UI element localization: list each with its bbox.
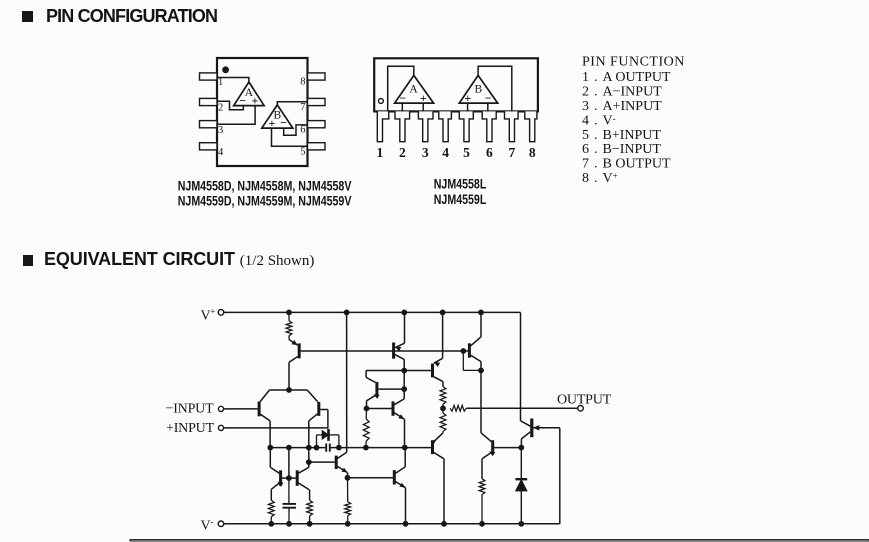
IC package DIP-8 body [217, 58, 308, 166]
svg-text:1: 1 [377, 145, 384, 160]
wire U-B +in to pin5 [467, 103, 469, 111]
junction Q4 base tie [461, 349, 484, 373]
capacitor C2 [283, 478, 297, 524]
SIP pins 1-8 [377, 111, 537, 141]
junction Q2 collector [402, 368, 407, 391]
wire U-A -in to pin2 [401, 103, 403, 111]
op-amp U-B (SIP) [459, 75, 497, 105]
terminal -INPUT [218, 406, 223, 411]
transistor Q15 (output) [521, 419, 560, 448]
transistor Q6 (+input) [309, 402, 328, 448]
svg-text:6.B−INPUT: 6.B−INPUT [582, 142, 661, 157]
svg-text:B: B [474, 84, 482, 96]
junction Q9 base [306, 460, 311, 465]
wire common base line [301, 350, 469, 352]
svg-text:OUTPUT: OUTPUT [557, 393, 612, 408]
header text: PIN CONFIGURATION [46, 6, 217, 28]
transistor Q3 (VAS) [433, 312, 444, 386]
svg-text:4: 4 [218, 147, 224, 158]
wire diff emitter rail [260, 390, 318, 402]
svg-text:7.B OUTPUT: 7.B OUTPUT [582, 157, 671, 172]
resistor R8 (horizontal) [450, 405, 466, 411]
resistor R1 [286, 312, 292, 339]
op-amp U-A (SIP) [395, 75, 434, 105]
svg-text:3: 3 [218, 125, 223, 136]
resistor R7 [440, 408, 446, 433]
junction diff tail [287, 388, 292, 393]
svg-text:A: A [409, 84, 418, 96]
svg-text:1.A OUTPUT: 1.A OUTPUT [582, 70, 671, 85]
wire U-B -in to pin6 [487, 103, 489, 111]
transistor Q11 [297, 448, 309, 501]
svg-text:V+: V+ [201, 306, 216, 323]
wire VAS node line [270, 447, 431, 449]
wire V+ rail [224, 312, 521, 420]
diode D1 [317, 429, 339, 448]
svg-text:V-: V- [201, 516, 214, 533]
svg-text:−: − [485, 91, 492, 105]
svg-text:NJM4558L: NJM4558L [434, 176, 487, 192]
resistor R6 [440, 387, 446, 409]
DIP right pins 8-5 [308, 73, 326, 150]
SIP index circle [379, 99, 384, 104]
DIP left pins 1-4 [200, 73, 218, 150]
wire pin6 to U-B -in [284, 125, 308, 135]
wire Q4 collector drop [480, 370, 482, 433]
svg-text:2: 2 [218, 103, 223, 114]
transistor Q14 [481, 433, 520, 479]
svg-text:+: + [251, 94, 258, 108]
wire VAS base line [366, 371, 431, 378]
svg-text:3: 3 [422, 145, 429, 160]
wire U-B out to pin7 [478, 66, 512, 111]
svg-text:NJM4559D, NJM4559M, NJM4559V: NJM4559D, NJM4559M, NJM4559V [178, 193, 352, 209]
svg-text:6: 6 [486, 145, 493, 160]
svg-text:NJM4558D, NJM4558M, NJM4558V: NJM4558D, NJM4558M, NJM4558V [178, 178, 352, 194]
diode D2 [515, 448, 527, 524]
resistor R9 [479, 479, 485, 524]
header square: EQUIVALENT CIRCUIT [23, 255, 34, 266]
wire pin1 to U-A out [217, 78, 249, 83]
label SIP part numbers [434, 176, 487, 207]
svg-text:8.V+: 8.V+ [582, 171, 618, 186]
svg-text:2.A−INPUT: 2.A−INPUT [582, 85, 662, 100]
header square: PIN CONFIGURATION [22, 11, 33, 22]
svg-text:−: − [239, 93, 246, 107]
transistor Q13 [431, 433, 444, 524]
svg-text:4: 4 [442, 145, 449, 160]
wire pin5 to U-B +in [272, 128, 308, 146]
wire -INPUT lead [224, 408, 258, 410]
resistor R3 [307, 500, 313, 524]
wire V+ center drop [346, 312, 348, 452]
wire pin3 to U-A +in [217, 106, 255, 125]
wire pin2 to U-A -in [217, 101, 243, 110]
wire U-B out to pin7 [277, 102, 307, 105]
junction node line [268, 445, 407, 450]
svg-text:6: 6 [300, 124, 305, 135]
transistor Q7 [366, 377, 404, 408]
svg-text:NJM4559L: NJM4559L [434, 192, 487, 208]
svg-text:5.B+INPUT: 5.B+INPUT [582, 128, 661, 143]
wire OUTPUT line [466, 407, 577, 409]
resistor R4 [345, 478, 351, 524]
transistor Q4 (diode conn.) [463, 312, 481, 370]
junction Q7 emitter node [364, 406, 369, 411]
svg-text:−: − [280, 116, 287, 130]
svg-text:4.V-: 4.V- [582, 113, 616, 128]
terminal OUTPUT [578, 406, 584, 412]
transistor Q8 [367, 399, 405, 448]
junction output node [441, 406, 446, 411]
header text: EQUIVALENT CIRCUIT [44, 249, 314, 271]
wire +INPUT lead [224, 427, 328, 429]
wire mirror bases [282, 448, 296, 479]
junction V- rail nodes [269, 521, 524, 526]
wire U-A +in to pin3 [422, 103, 424, 111]
terminal +INPUT [218, 425, 223, 430]
svg-text:2: 2 [399, 145, 406, 160]
wire V- rail [224, 428, 560, 524]
op-amp U-A (DIP) [234, 82, 264, 108]
transistor Q5 (-input) [259, 402, 270, 448]
transistor Q12 [348, 448, 406, 524]
op-amp U-B (DIP) [262, 105, 293, 130]
junction mirror base [287, 476, 292, 481]
transistor Q1 [289, 340, 299, 391]
svg-text:−INPUT: −INPUT [166, 401, 215, 416]
scan edge artifact bottom [130, 540, 869, 541]
resistor R2 [268, 500, 274, 524]
terminal V- [218, 521, 224, 527]
svg-text:+INPUT: +INPUT [166, 421, 215, 436]
junction V+ rail nodes [287, 310, 484, 315]
SIP pin numbers [377, 145, 536, 160]
svg-text:7: 7 [509, 145, 516, 160]
transistor Q10 [270, 448, 282, 501]
svg-text:8: 8 [300, 77, 305, 88]
resistor R5 [363, 409, 369, 448]
terminal V+ [218, 310, 224, 316]
capacitor C1 [326, 444, 330, 452]
svg-text:1: 1 [218, 77, 223, 88]
index dot [223, 67, 229, 73]
svg-text:−: − [399, 91, 406, 105]
transistor Q2 [394, 312, 405, 399]
svg-text:5: 5 [463, 145, 470, 160]
svg-text:7: 7 [300, 102, 305, 113]
wire U-A out to pin1 [388, 66, 414, 111]
svg-text:5: 5 [300, 147, 305, 158]
junction output-PNP collector node [519, 445, 524, 450]
junction Q9 emitter node [345, 475, 350, 480]
svg-text:PIN FUNCTION: PIN FUNCTION [582, 55, 685, 70]
svg-text:3.A+INPUT: 3.A+INPUT [582, 99, 662, 114]
DIP pin numbers [218, 77, 306, 158]
svg-text:+: + [268, 116, 275, 130]
IC package SIP-8 body [374, 58, 538, 111]
label DIP part numbers [178, 178, 352, 209]
svg-text:8: 8 [529, 145, 536, 160]
transistor Q9 [309, 452, 348, 478]
